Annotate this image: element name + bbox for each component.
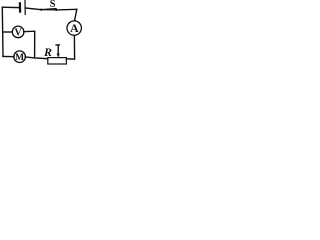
battery B1 xyxy=(20,1,25,15)
wire bottom-left corner to motor xyxy=(3,55,14,57)
wire right vertical to ammeter xyxy=(75,9,77,19)
label R xyxy=(43,45,52,59)
svg-text:M: M xyxy=(15,53,24,63)
ammeter needle xyxy=(73,18,76,21)
rheostat slider arrow xyxy=(56,45,60,58)
svg-text:V: V xyxy=(14,27,22,38)
wire ammeter down to bottom-right corner xyxy=(66,35,74,59)
wire battery to switch xyxy=(25,8,40,10)
svg-text:S: S xyxy=(50,0,56,10)
svg-text:R: R xyxy=(43,45,52,59)
wire voltmeter to bottom junction xyxy=(24,31,35,58)
wire switch to top-right corner xyxy=(56,8,77,11)
motor U M xyxy=(14,51,26,63)
wire left vertical xyxy=(1,7,4,56)
voltmeter stub from left wire xyxy=(3,31,13,33)
wire top-left segment xyxy=(2,6,19,8)
rheostat R box xyxy=(48,58,67,64)
label S xyxy=(50,0,56,10)
ammeter U A xyxy=(67,21,81,35)
switch S xyxy=(40,9,57,12)
svg-text:A: A xyxy=(70,21,79,35)
wire motor to rheostat xyxy=(25,57,48,59)
voltmeter U V xyxy=(12,26,24,38)
